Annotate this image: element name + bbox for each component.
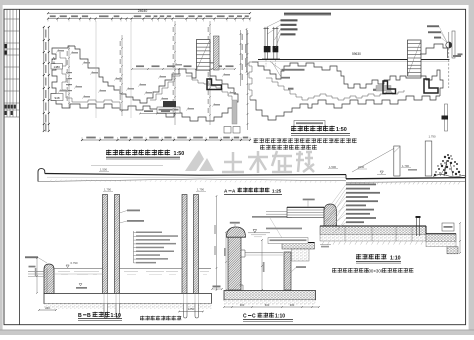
svg-text:0.790: 0.790 <box>71 261 78 265</box>
B-B rock wall left <box>44 264 54 294</box>
plan2 grey pier <box>376 86 391 92</box>
water structure detail <box>287 207 324 217</box>
plan2 lake outline lower <box>250 96 440 120</box>
plan1 label box 1480 <box>51 64 63 70</box>
B-B left depth dim <box>36 258 38 293</box>
plan1 inner shoreline right <box>186 76 232 100</box>
section A-A water mark <box>380 171 383 174</box>
B-B dim 1250 <box>179 311 203 313</box>
title-block table <box>6 9 8 117</box>
svg-text:1.790: 1.790 <box>197 188 204 192</box>
svg-text:1.790: 1.790 <box>104 188 111 192</box>
B-B layer callouts <box>133 231 135 263</box>
svg-text:300: 300 <box>240 303 245 307</box>
B-B mid marker <box>79 284 82 286</box>
plan1 dark pier <box>163 101 176 107</box>
page margins <box>0 0 474 5</box>
plan2 outline left closure <box>249 62 252 100</box>
plan2 grey bar right <box>452 31 455 58</box>
plan1 scattered small dims <box>58 50 64 52</box>
plan2 inlet outline <box>420 44 448 58</box>
plan1 internal vertical dims <box>68 45 70 108</box>
plan2 boxed label <box>294 121 325 127</box>
B-B right dim line <box>216 196 218 290</box>
plan1 central tick pairs <box>66 72 72 73</box>
plan2 pipe risers <box>264 27 266 59</box>
B-B base slab <box>44 294 212 304</box>
section A-A posts <box>352 149 394 173</box>
plan2 fountain circle <box>446 42 452 48</box>
plan2 thick L wall <box>424 79 438 93</box>
section A-A upper level line <box>91 165 163 167</box>
B-B wall pair 1 <box>103 195 108 295</box>
plan1 stairs <box>197 40 211 71</box>
plan2 stairs <box>408 40 422 76</box>
plan1 internal horizontal dims <box>132 68 235 70</box>
svg-text:59630: 59630 <box>352 52 361 56</box>
svg-text:1:25: 1:25 <box>272 189 282 194</box>
section C-C <box>228 237 241 290</box>
plan2 label stack left <box>284 13 331 15</box>
plan1 right dim columns <box>240 30 242 86</box>
plan2 main water pipe <box>258 59 450 61</box>
plan1 boxed label <box>157 107 180 113</box>
watermark logo and text <box>185 150 204 171</box>
section A-A plant and rocks <box>435 171 436 172</box>
plan1 small posts bottom <box>224 127 231 134</box>
svg-text:1.790: 1.790 <box>429 135 436 139</box>
B-B wall pair 2 <box>182 195 187 295</box>
plan2 notes <box>254 138 259 143</box>
svg-text:1.500: 1.500 <box>329 165 336 169</box>
plan2 tiny label right <box>458 53 463 55</box>
B-B dim 240 <box>39 309 56 311</box>
svg-text:1.790: 1.790 <box>402 164 409 168</box>
plan2 lake outline upper <box>252 62 443 96</box>
svg-text:600: 600 <box>265 303 270 307</box>
svg-text:948: 948 <box>54 96 59 100</box>
plan2 valve label <box>453 55 461 57</box>
svg-text:B: B <box>78 313 82 319</box>
svg-text:2400: 2400 <box>358 165 365 169</box>
svg-text:1480: 1480 <box>53 65 60 69</box>
plan1 top dimension lines <box>48 12 250 14</box>
svg-text:24640: 24640 <box>138 9 148 13</box>
B-B piles <box>103 294 105 304</box>
svg-text:C: C <box>252 313 256 319</box>
plan2 left dim column <box>246 29 248 72</box>
plan1 bottom dimension line <box>82 139 250 141</box>
plan1 label box 948 <box>51 94 63 101</box>
svg-text:240: 240 <box>45 306 50 310</box>
plan1 thick L wall <box>207 79 222 90</box>
plan2 title <box>291 126 297 132</box>
plan2 label stack right <box>427 25 439 27</box>
svg-text:1250: 1250 <box>188 307 195 311</box>
plan1 title <box>106 150 112 156</box>
svg-text:1:50: 1:50 <box>174 151 185 157</box>
svg-text:1:50: 1:50 <box>336 127 347 133</box>
plan1 grey wall bar <box>232 100 237 124</box>
svg-text:1.500: 1.500 <box>100 168 107 172</box>
svg-text:B: B <box>87 313 91 319</box>
plan1 inner shoreline <box>60 52 120 104</box>
section A-A channel strip <box>38 169 45 182</box>
B-B ground speckle <box>44 304 212 310</box>
water structure title <box>356 254 361 259</box>
water structure note <box>332 268 337 273</box>
plan2 internal labels <box>282 69 305 71</box>
water structure callouts <box>346 184 376 186</box>
plan2 thick L wall 1 <box>383 81 396 94</box>
svg-text:1:10: 1:10 <box>390 255 401 261</box>
B-B wall labels <box>127 210 140 212</box>
plan1 channel inner bank <box>150 73 180 100</box>
svg-text:300: 300 <box>290 303 295 307</box>
svg-text:300×300: 300×300 <box>366 268 384 273</box>
svg-text:C: C <box>243 313 247 319</box>
B-B left labels <box>25 256 38 258</box>
plan1 lake outline <box>51 46 238 121</box>
small dim mid <box>212 288 222 290</box>
svg-text:1:10: 1:10 <box>275 313 285 319</box>
B-B water <box>54 268 103 270</box>
plan1 dark bar near stairs <box>214 36 220 70</box>
plan1 left dimension column <box>43 27 45 131</box>
sheet inner frame line <box>19 9 21 324</box>
svg-text:1:10: 1:10 <box>111 313 121 319</box>
B-B note <box>140 316 145 321</box>
plan2 inner shoreline <box>266 78 404 100</box>
